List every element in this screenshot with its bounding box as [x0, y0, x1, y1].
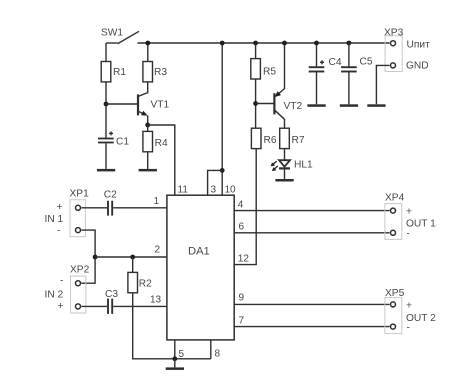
svg-text:VT1: VT1 — [151, 100, 170, 111]
node rail/C5 — [347, 41, 352, 46]
wire: top supply rail — [138, 42, 390, 44]
node pin2 tap — [93, 255, 98, 260]
svg-text:8: 8 — [215, 349, 221, 360]
wire R2 bottom to ground rail — [133, 293, 211, 359]
wire pin 9 to XP5+ — [234, 303, 389, 305]
wire rail down to pins 3/10 — [221, 43, 223, 170]
svg-text:Uпит: Uпит — [407, 40, 431, 51]
capacitor C1 — [98, 131, 129, 147]
wire VT2 collector to R7 — [284, 119, 286, 128]
resistor R1 — [101, 62, 126, 82]
ground (HL1) — [275, 179, 293, 182]
svg-text:SW1: SW1 — [101, 28, 123, 39]
svg-text:11: 11 — [178, 185, 189, 196]
svg-text:R6: R6 — [264, 135, 277, 146]
node rail x222 — [220, 41, 225, 46]
svg-text:VT2: VT2 — [284, 101, 303, 112]
wire R5 bottom to R6 — [255, 79, 257, 128]
resistor R2 — [128, 257, 152, 293]
node rail/R5 — [253, 41, 258, 46]
wire R5 top — [255, 43, 257, 59]
wire R6 bottom to DA1 pin 12 — [234, 149, 256, 265]
svg-text:7: 7 — [239, 316, 245, 327]
wire pin 7 to XP5- — [234, 326, 389, 328]
svg-text:-: - — [60, 276, 63, 287]
wire R3 top — [147, 43, 149, 62]
capacitor C2 — [104, 189, 117, 215]
ground (R4) — [139, 169, 157, 172]
svg-text:R4: R4 — [155, 138, 168, 149]
svg-text:6: 6 — [239, 222, 245, 233]
svg-text:-: - — [407, 322, 410, 333]
node emitter/R4/pin11 — [145, 123, 150, 128]
capacitor C4 — [309, 43, 342, 104]
svg-text:R5: R5 — [263, 67, 276, 78]
ground (XP3) — [367, 104, 385, 107]
svg-text:R3: R3 — [154, 67, 167, 78]
wire XP1+ to C2 — [81, 207, 107, 209]
wire R4 to ground — [147, 152, 149, 169]
op-amp IC DA1 — [167, 195, 234, 340]
svg-text:IN 2: IN 2 — [45, 290, 64, 301]
transistor VT1 — [138, 93, 170, 116]
switch SW1 — [101, 28, 139, 62]
wire pin 8 — [210, 340, 212, 359]
node rail/R3 — [145, 41, 150, 46]
resistor R4 — [143, 125, 168, 152]
transistor VT2 — [274, 89, 302, 120]
svg-text:OUT 2: OUT 2 — [406, 313, 436, 324]
wire pin 5 — [174, 340, 176, 359]
svg-text:DA1: DA1 — [188, 246, 210, 258]
svg-text:+: + — [406, 207, 412, 218]
wire to pin 10 — [221, 170, 223, 195]
svg-text:1: 1 — [154, 196, 160, 207]
resistor R3 — [143, 62, 167, 82]
svg-text:C2: C2 — [104, 189, 117, 200]
ground (DA1) — [166, 367, 184, 370]
wire XP3 GND to ground — [376, 65, 389, 104]
svg-text:5: 5 — [179, 349, 185, 360]
wire XP1- to XP2- bus — [81, 230, 95, 283]
wire to pin 3 — [208, 170, 223, 195]
node R2 top — [130, 255, 135, 260]
resistor R5 — [251, 59, 277, 79]
ground (C4) — [307, 104, 325, 107]
svg-text:4: 4 — [238, 199, 244, 210]
svg-text:R7: R7 — [292, 135, 305, 146]
connector XP1 — [45, 189, 90, 237]
wire VT1 base — [106, 103, 138, 105]
svg-text:GND: GND — [406, 61, 429, 72]
svg-text:XP4: XP4 — [385, 193, 405, 204]
svg-text:XP2: XP2 — [70, 265, 90, 276]
capacitor C3 — [105, 289, 118, 314]
svg-text:XP5: XP5 — [385, 288, 405, 299]
svg-text:12: 12 — [238, 254, 250, 265]
LED HL1 — [271, 160, 313, 172]
node pins 3/10 split — [220, 168, 225, 173]
svg-text:+: + — [57, 202, 63, 213]
wire VT2 base — [256, 103, 274, 105]
connector XP2 — [45, 265, 90, 314]
svg-text:-: - — [57, 226, 60, 237]
wire VT1 emitter down — [147, 115, 149, 125]
ground (C5) — [340, 104, 358, 107]
wire VT2 emitter to rail — [284, 43, 286, 89]
wire node to ground — [174, 359, 176, 368]
svg-text:R2: R2 — [139, 279, 152, 290]
wire R1 bottom to base node and C1 — [105, 82, 107, 138]
svg-text:3: 3 — [211, 185, 217, 196]
svg-text:13: 13 — [150, 295, 162, 306]
svg-text:IN 1: IN 1 — [45, 214, 64, 225]
node rail x284 — [282, 41, 287, 46]
wire emitter node to DA1 pin 11 — [148, 125, 175, 195]
wire VT1 collector to R3 — [147, 82, 149, 94]
svg-text:XP1: XP1 — [70, 189, 90, 200]
svg-text:XP3: XP3 — [384, 27, 404, 38]
wire pin 6 to XP4- — [234, 232, 389, 234]
svg-text:C5: C5 — [360, 56, 373, 67]
svg-text:C3: C3 — [105, 289, 118, 300]
node rail/C4 — [314, 41, 319, 46]
svg-text:C1: C1 — [116, 137, 129, 148]
wire C1 to ground — [105, 143, 107, 169]
wire DA1 pin 2 — [95, 256, 167, 258]
svg-text:+: + — [406, 300, 412, 311]
svg-text:+: + — [58, 301, 64, 312]
resistor R7 — [280, 128, 305, 148]
wire R7 to HL1 — [284, 149, 286, 160]
svg-text:10: 10 — [225, 185, 237, 196]
capacitor C5 — [341, 43, 373, 104]
connector XP3 — [384, 27, 430, 71]
wire C3 to DA1 pin 13 — [113, 305, 167, 307]
svg-text:C4: C4 — [329, 57, 342, 68]
svg-text:OUT 1: OUT 1 — [406, 218, 436, 229]
svg-text:9: 9 — [239, 293, 245, 304]
wire pin 4 to XP4+ — [234, 210, 389, 212]
wire XP2+ to C3 — [81, 305, 107, 307]
wire HL1 to ground — [284, 168, 286, 179]
svg-text:HL1: HL1 — [294, 160, 313, 171]
connector XP4 — [385, 193, 436, 240]
svg-text:2: 2 — [155, 245, 161, 256]
connector XP5 — [385, 288, 436, 334]
node VT2 base — [253, 101, 258, 106]
svg-text:R1: R1 — [113, 67, 126, 78]
resistor R6 — [251, 128, 276, 148]
node ground junction — [172, 356, 177, 361]
wire C2 to DA1 pin 1 — [113, 207, 167, 209]
node VT1 base junction — [104, 102, 109, 107]
svg-text:-: - — [407, 229, 410, 240]
ground (C1) — [97, 169, 115, 172]
